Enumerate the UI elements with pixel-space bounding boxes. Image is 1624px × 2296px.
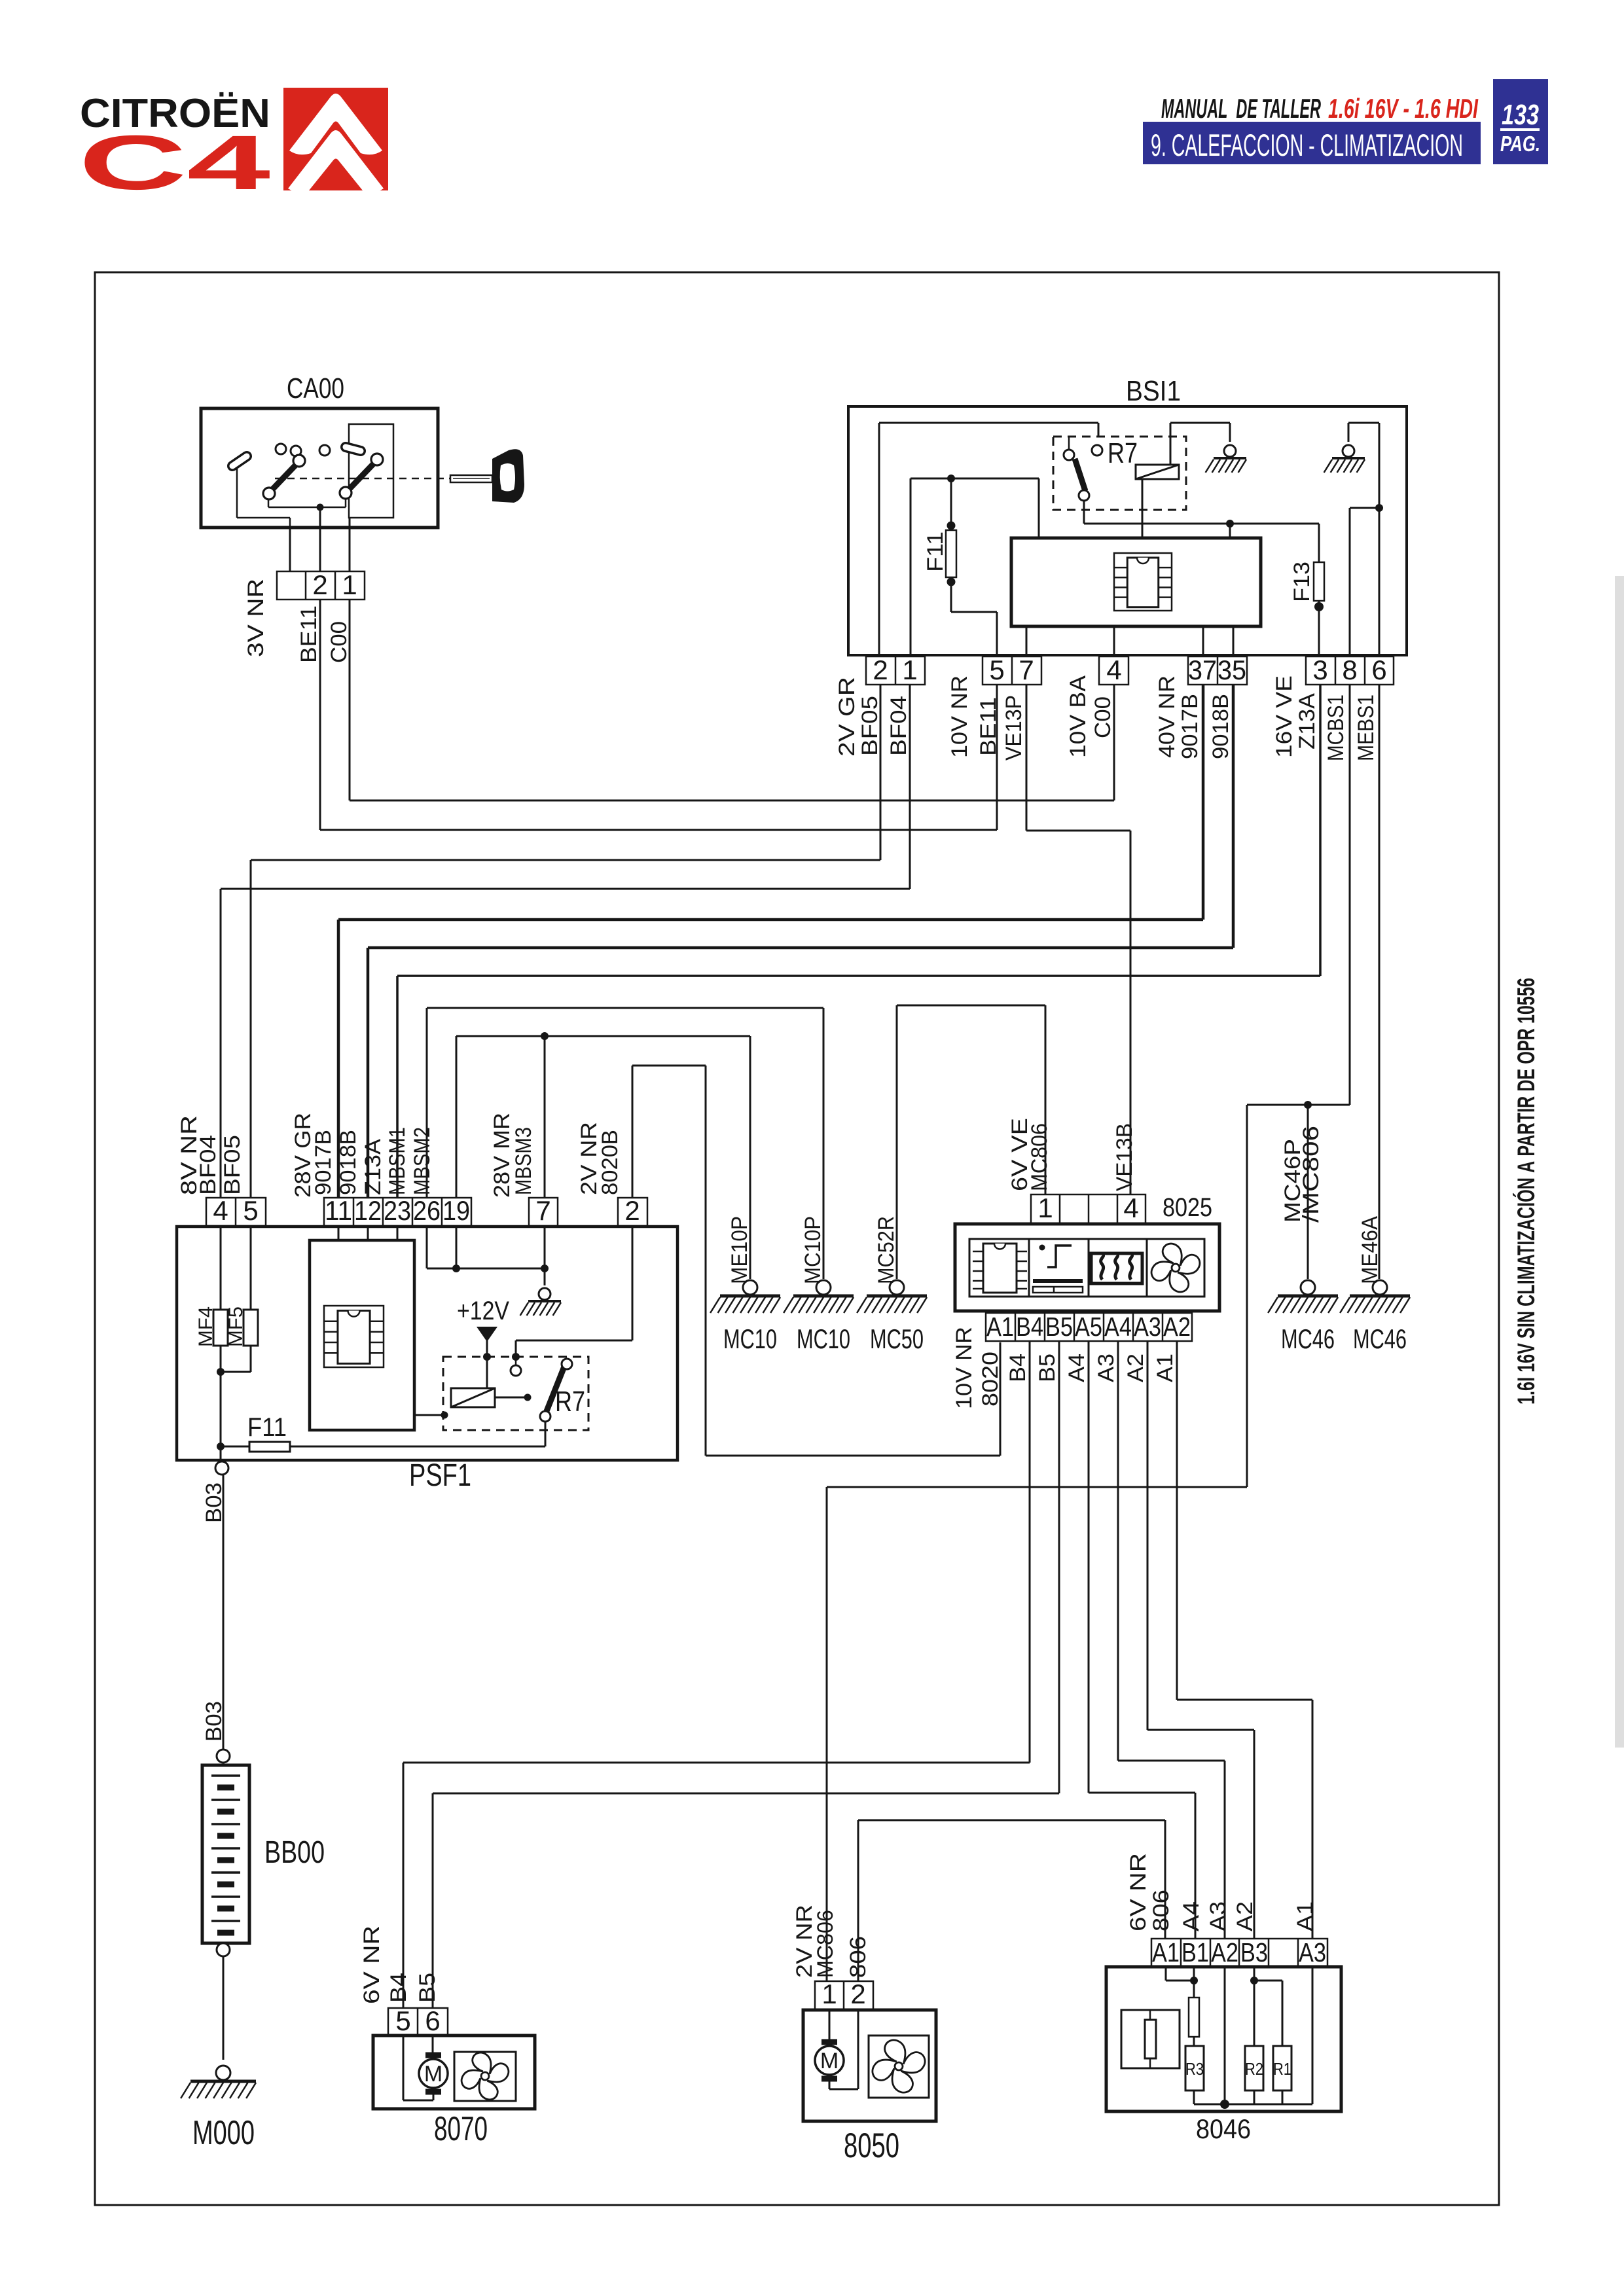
svg-text:R1: R1: [1273, 2059, 1291, 2079]
svg-text:8: 8: [1342, 655, 1357, 685]
svg-text:A2: A2: [1163, 1312, 1191, 1342]
fuse F11 (PSF1): [247, 1413, 545, 1452]
svg-text:A2: A2: [1123, 1354, 1148, 1382]
svg-text:R3: R3: [1185, 2059, 1204, 2079]
wire 8020B inside PSF1: [516, 1227, 632, 1357]
wire A1 (8025 A2 to 8046 A3): [1177, 1341, 1312, 1939]
svg-text:6V NR: 6V NR: [1126, 1853, 1151, 1931]
wire module to relay (PSF1): [414, 1412, 448, 1419]
svg-text:2: 2: [312, 569, 327, 600]
svg-text:CA00: CA00: [287, 372, 344, 404]
svg-text:1: 1: [342, 569, 357, 600]
svg-text:BF05: BF05: [857, 696, 882, 756]
svg-text:A2: A2: [1211, 1937, 1238, 1967]
ground MC10P / MC10: [784, 1280, 854, 1354]
labels 6V NR / B4 / B5 (8070): [359, 1926, 440, 2004]
wire BF05 (BSI1 pin2 to PSF1 pin5): [251, 685, 880, 1198]
svg-text:R2: R2: [1245, 2059, 1263, 2079]
svg-text:B5: B5: [1035, 1354, 1060, 1382]
svg-text:5: 5: [395, 2005, 410, 2036]
svg-text:2: 2: [873, 655, 888, 685]
svg-text:2: 2: [624, 1195, 640, 1226]
svg-text:8050: 8050: [844, 2126, 899, 2165]
wire BF05 inside BSI1 (pin 2 to relay contact): [879, 423, 1098, 656]
svg-text:9017B: 9017B: [311, 1130, 336, 1195]
side caption 1.6I 16V SIN CLIMATIZACION: [1512, 978, 1540, 1405]
svg-text:MANUAL DE TALLER: MANUAL DE TALLER: [1161, 93, 1321, 124]
svg-text:MC50: MC50: [870, 1323, 924, 1354]
svg-text:6V NR: 6V NR: [359, 1926, 384, 2004]
Citroen logo wordmark: [79, 91, 270, 206]
battery BB00: [202, 1749, 325, 1956]
svg-text:M: M: [424, 2062, 442, 2087]
BSI1 pin numbers: [873, 655, 1386, 685]
diagram border frame: [95, 272, 1499, 2205]
8046 internal: B3 node: [1250, 1967, 1282, 2046]
svg-text:B03: B03: [202, 1482, 226, 1523]
ground in BSI1 (left): [1206, 445, 1246, 473]
wire MBSM2 (PSF1 pin19 to ground MC10): [456, 1036, 750, 1279]
BSI1 harness labels: [835, 675, 1379, 761]
ground in BSI1 (right): [1324, 445, 1365, 473]
wire MEBS1 / ME46A (BSI1 pin6 to ground MC46): [1379, 685, 1380, 1279]
svg-text:9018B: 9018B: [336, 1130, 361, 1195]
svg-text:11: 11: [325, 1195, 352, 1226]
8050 motor M: [815, 2010, 858, 2089]
svg-text:B4: B4: [1005, 1354, 1030, 1382]
wire 9017B (BSI1 pin37 to PSF1 pin11): [338, 685, 1203, 1198]
svg-text:Z13A: Z13A: [361, 1139, 386, 1195]
svg-text:MC46: MC46: [1353, 1323, 1407, 1354]
module output stubs: [1026, 626, 1233, 656]
PSF1 harness labels: [177, 1113, 623, 1198]
svg-text:A5: A5: [1075, 1312, 1102, 1342]
svg-text:2: 2: [850, 1979, 865, 2009]
wire B5 (8025 B5 to 8070 pin6): [433, 1341, 1059, 2008]
page number box 133 PAG.: [1493, 79, 1548, 164]
node B03 wire: [223, 1475, 225, 1749]
svg-text:M: M: [820, 2049, 839, 2073]
svg-text:9017B: 9017B: [1178, 694, 1202, 759]
header section bar 9. CALEFACCION - CLIMATIZACION: [1143, 122, 1481, 164]
svg-text:F13: F13: [1290, 562, 1314, 602]
svg-text:B3: B3: [1240, 1937, 1268, 1967]
wire BE11 from F11 to pin 5: [951, 612, 997, 656]
ground in PSF1: [520, 1288, 561, 1316]
wire battery to ground: [223, 1956, 225, 2060]
svg-text:3V NR: 3V NR: [244, 579, 268, 657]
svg-text:A2: A2: [1233, 1901, 1257, 1931]
wire VE13P / VE13B (BSI1 pin7 to 8025 pin4): [1026, 685, 1130, 1194]
labels 2V NR / MC806 / 806 (8050): [792, 1905, 871, 1978]
svg-text:MC10: MC10: [797, 1323, 850, 1354]
svg-text:1: 1: [902, 655, 917, 685]
battery feed exit B03: [215, 1446, 228, 1475]
svg-text:7: 7: [1019, 655, 1034, 685]
svg-text:5: 5: [989, 655, 1004, 685]
svg-text:BSI1: BSI1: [1126, 375, 1181, 407]
svg-text:806: 806: [846, 1936, 871, 1978]
engine fusebox PSF1: [177, 1227, 677, 1493]
svg-text:9018B: 9018B: [1208, 694, 1233, 759]
wire C00 (CA00 pin1 to BSI1 pin4): [350, 600, 1114, 800]
ground MC52R / MC50: [857, 1280, 927, 1354]
wire relay coil to ground (BSI1): [1170, 423, 1230, 465]
svg-text:MC10: MC10: [723, 1323, 777, 1354]
svg-text:ME46A: ME46A: [1358, 1216, 1382, 1284]
svg-text:MC806: MC806: [1027, 1123, 1052, 1191]
ground ME10P / MC10: [710, 1280, 780, 1354]
svg-text:1.6i 16V - 1.6 HDI: 1.6i 16V - 1.6 HDI: [1328, 93, 1479, 124]
svg-text:A4: A4: [1179, 1901, 1204, 1931]
8025 fan icon: [1149, 1242, 1202, 1294]
labels 6V NR / 806 / A4 A3 A2 A1 (8046): [1126, 1853, 1318, 1931]
svg-text:MC46: MC46: [1281, 1323, 1335, 1354]
svg-text:MBSM3: MBSM3: [511, 1127, 536, 1195]
wire MF to F11 and B03 exit: [217, 1372, 249, 1450]
svg-text:4: 4: [1106, 655, 1121, 685]
PSF1 pin numbers: [213, 1195, 640, 1226]
BSI1 electronic module: [1011, 538, 1261, 626]
wire A2 (8025 A3 to 8046 B3): [1147, 1341, 1254, 1939]
8070 motor M: [403, 2036, 448, 2100]
fuse F11 (BSI1): [946, 478, 956, 612]
8050 connector pins 1,2: [815, 1979, 873, 2009]
8025 module icon: [973, 1244, 1027, 1293]
resistor R1: [1273, 2046, 1291, 2104]
resistor R3: [1185, 2046, 1204, 2104]
8025 top connector (pins 1,4): [1031, 1193, 1146, 1224]
wire BE11 (CA00 pin2 to BSI1 pin5): [320, 600, 997, 830]
svg-text:10V NR: 10V NR: [952, 1327, 977, 1409]
wire MC46P branch to ground: [1307, 1105, 1309, 1279]
svg-text:37: 37: [1188, 655, 1217, 685]
svg-text:MEBS1: MEBS1: [1354, 694, 1379, 761]
connector of CA00 (pins 2,1): [277, 507, 365, 600]
svg-text:VE13P: VE13P: [1001, 695, 1026, 761]
wire MBSM3 (PSF1 pin7 joins MBSM2): [541, 1032, 549, 1198]
svg-text:8020: 8020: [978, 1352, 1003, 1407]
relay R7 in BSI1: [1053, 437, 1186, 510]
8070 fan: [454, 2051, 516, 2101]
svg-text:B5: B5: [415, 1973, 440, 2003]
svg-text:A3: A3: [1094, 1354, 1119, 1382]
svg-text:19: 19: [442, 1195, 470, 1226]
relay R7 details (BSI1): [1064, 437, 1179, 538]
svg-text:6: 6: [1371, 655, 1386, 685]
svg-text:A1: A1: [1153, 1354, 1178, 1382]
svg-text:R7: R7: [1108, 437, 1138, 469]
8070 connector pins 5,6: [388, 2005, 448, 2036]
fuse F13: [1314, 562, 1324, 656]
svg-text:F11: F11: [923, 531, 948, 572]
wire A3 (8025 A4 to 8046 A2): [1118, 1341, 1225, 1939]
svg-text:PAG.: PAG.: [1500, 132, 1540, 156]
svg-text:R7: R7: [555, 1386, 585, 1418]
wire MBSM1 (PSF1 pin26 to ground MC10): [427, 1008, 823, 1279]
8025 bottom connector (A1 B4 B5 A5 A4 A3 A2): [986, 1312, 1192, 1342]
svg-text:B4: B4: [1016, 1312, 1043, 1342]
svg-text:1: 1: [821, 1979, 837, 2009]
wire A4 (8025 A5 to 8046 B1): [1089, 1341, 1195, 1939]
heater control panel 8025: [955, 1193, 1219, 1311]
svg-text:6: 6: [425, 2005, 440, 2036]
svg-text:4: 4: [213, 1195, 228, 1226]
8050 fan: [869, 2036, 929, 2098]
svg-text:C00: C00: [327, 621, 352, 663]
svg-text:A4: A4: [1064, 1354, 1089, 1382]
wire pin6 / ground (BSI1 right): [1348, 423, 1379, 656]
svg-text:C00: C00: [1091, 696, 1115, 738]
wire B4 (8025 B4 to 8070 pin5): [403, 1341, 1030, 2008]
ignition key symbol: [450, 449, 524, 503]
ground MC46P / MC46: [1268, 1280, 1338, 1354]
svg-text:12: 12: [354, 1195, 382, 1226]
8046 bottom bus: [1194, 1967, 1312, 2109]
8025 bottom harness labels: [952, 1327, 1178, 1409]
svg-text:BF05: BF05: [220, 1135, 245, 1195]
relay R7 (PSF1): [443, 1353, 588, 1446]
svg-text:1.6I 16V SIN CLIMATIZACIÓN A P: 1.6I 16V SIN CLIMATIZACIÓN A PARTIR DE O…: [1512, 978, 1540, 1405]
svg-text:MC52R: MC52R: [874, 1216, 899, 1284]
wire 806 (8050 pin2 to 8046 A1): [858, 1820, 1165, 1981]
wire relay to F13 and module: [1084, 520, 1319, 562]
svg-text:40V NR: 40V NR: [1155, 675, 1180, 758]
svg-text:MF5: MF5: [225, 1306, 247, 1347]
wire 9018B (BSI1 pin35 to PSF1 pin12): [368, 685, 1233, 1198]
svg-text:A1: A1: [1152, 1937, 1180, 1967]
svg-text:C4: C4: [79, 120, 270, 206]
svg-text:A3: A3: [1206, 1901, 1231, 1931]
8025 thermostat icon: [1033, 1245, 1083, 1293]
8046 connector A1 B1 A2 B3 - A3: [1151, 1937, 1327, 1967]
svg-text:MC806: MC806: [813, 1910, 838, 1978]
svg-text:MF4: MF4: [195, 1306, 217, 1347]
svg-text:M000: M000: [192, 2114, 255, 2152]
blower unit 8070: [373, 2036, 535, 2148]
svg-text:BB00: BB00: [264, 1835, 325, 1870]
svg-text:4: 4: [1123, 1193, 1138, 1223]
blower resistor unit 8046: [1106, 1967, 1341, 2144]
svg-text:A1: A1: [986, 1312, 1014, 1342]
wire Z13A (BSI1 pin3 to PSF1 pin23): [397, 685, 1320, 1198]
svg-text:B5: B5: [1045, 1312, 1073, 1342]
svg-text:A3: A3: [1299, 1937, 1326, 1967]
ground M000: [181, 2066, 256, 2152]
svg-text:VE13B: VE13B: [1112, 1123, 1137, 1191]
8025 pin1 wire stub: [1045, 1005, 1046, 1194]
BSI1 connectors: [866, 656, 1394, 685]
svg-text:F11: F11: [247, 1413, 287, 1442]
svg-text:5: 5: [243, 1195, 258, 1226]
svg-text:MBSM2: MBSM2: [410, 1127, 435, 1195]
wire MCBS1 / MC806 (BSI1 pin8 to 8050 pin1, branch to MC46): [827, 685, 1350, 1981]
svg-text:PSF1: PSF1: [409, 1458, 471, 1493]
8025 heater icon: [1091, 1253, 1142, 1283]
8046 sensor box: [1121, 2010, 1180, 2068]
ground ME46A / MC46: [1340, 1280, 1410, 1354]
ground wire pins 26/19/7 (PSF1): [427, 1227, 549, 1285]
svg-text:7: 7: [535, 1195, 550, 1226]
resistor R2: [1245, 2046, 1263, 2104]
svg-text:9. CALEFACCION - CLIMATIZACION: 9. CALEFACCION - CLIMATIZACION: [1151, 128, 1463, 162]
wire BF04 inside BSI1: [911, 475, 1039, 656]
svg-text:MCBS1: MCBS1: [1324, 694, 1348, 761]
svg-text:10V NR: 10V NR: [947, 675, 972, 758]
svg-text:B03: B03: [202, 1701, 226, 1742]
svg-text:16V VE: 16V VE: [1272, 675, 1297, 758]
ignition switch CA00: [201, 372, 450, 528]
Citroen chevron emblem: [283, 88, 388, 192]
svg-text:BF04: BF04: [196, 1135, 221, 1195]
header title MANUAL DE TALLER: [1161, 93, 1479, 124]
+12V supply symbol: [457, 1297, 509, 1388]
svg-text:B4: B4: [386, 1973, 411, 2003]
svg-text:8070: 8070: [434, 2110, 488, 2148]
svg-text:10V BA: 10V BA: [1066, 675, 1091, 758]
scanner edge band: [1615, 576, 1624, 1748]
svg-text:BE11: BE11: [297, 605, 321, 663]
svg-text:A1: A1: [1293, 1901, 1318, 1931]
svg-text:/MC806: /MC806: [1299, 1126, 1324, 1223]
wire BF04 (BSI1 pin1 to PSF1 pin4): [221, 685, 910, 1198]
PSF1 control module: [310, 1227, 414, 1430]
svg-text:8025: 8025: [1163, 1193, 1212, 1222]
svg-text:B1: B1: [1182, 1937, 1209, 1967]
svg-text:23: 23: [384, 1195, 411, 1226]
PSF1 connectors: [206, 1198, 647, 1226]
svg-text:806: 806: [1149, 1890, 1174, 1931]
svg-text:MBSM1: MBSM1: [385, 1127, 410, 1195]
svg-text:A4: A4: [1104, 1312, 1132, 1342]
svg-text:35: 35: [1218, 655, 1246, 685]
svg-text:A3: A3: [1134, 1312, 1161, 1342]
labels 6V VE / MC806 / VE13B: [1007, 1118, 1137, 1191]
svg-text:8046: 8046: [1196, 2113, 1251, 2144]
svg-text:3: 3: [1312, 655, 1327, 685]
built-in systems interface BSI1: [848, 375, 1407, 655]
blower unit 8050: [803, 2010, 936, 2165]
svg-text:MC10P: MC10P: [801, 1216, 825, 1284]
wire 8020B / 8020 (PSF1 pin2 to 8025 A1): [632, 1066, 1000, 1456]
8046 internal: A1 to B1 link: [1166, 1967, 1198, 1984]
8046 thermal fuse: [1189, 1967, 1199, 2046]
svg-text:26: 26: [413, 1195, 441, 1226]
svg-text:2V GR: 2V GR: [835, 677, 859, 757]
svg-text:Z13A: Z13A: [1295, 693, 1320, 749]
svg-text:133: 133: [1502, 99, 1539, 131]
svg-text:BF04: BF04: [886, 696, 911, 756]
svg-text:1: 1: [1038, 1193, 1053, 1223]
wire MC806 (8025 pin1 to ground MC50): [897, 1005, 1045, 1279]
wire pin8 junction MCBS1 (BSI1): [1350, 504, 1383, 656]
svg-text:8020B: 8020B: [598, 1130, 623, 1195]
svg-text:+12V: +12V: [457, 1297, 509, 1325]
fuses MF4 MF5: [213, 1227, 258, 1376]
svg-text:ME10P: ME10P: [727, 1216, 752, 1284]
